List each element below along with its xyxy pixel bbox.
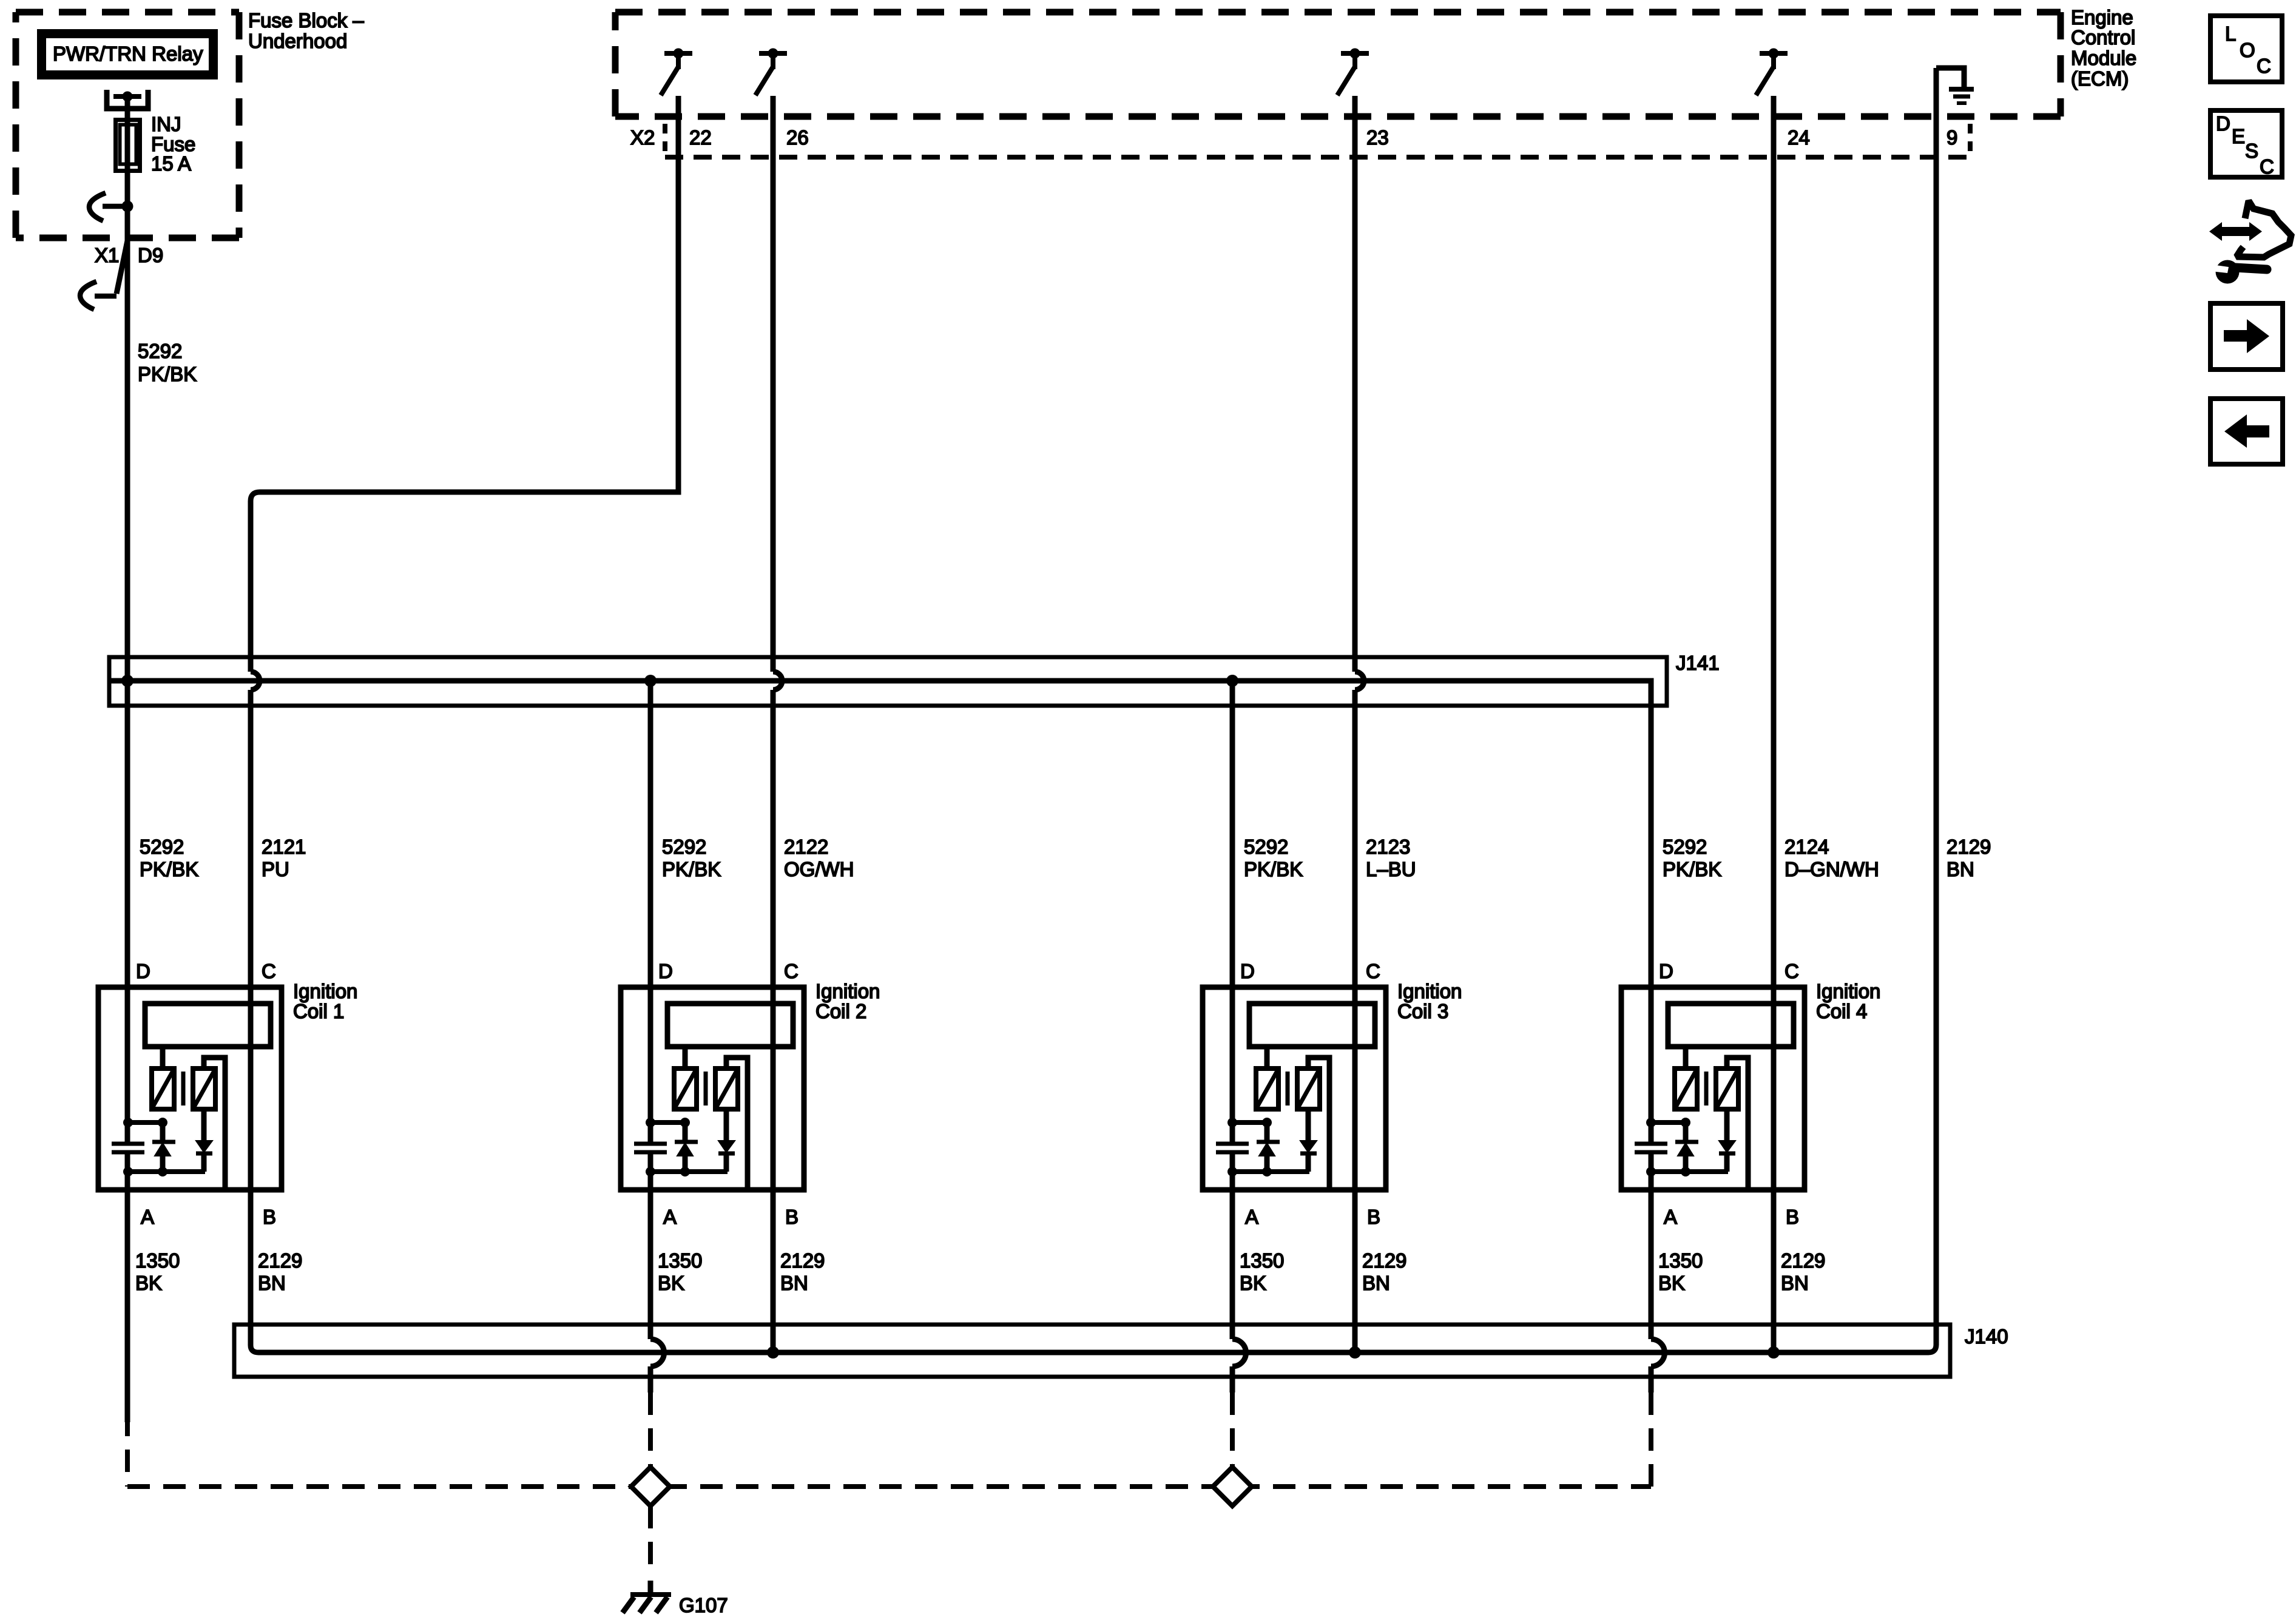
svg-text:26: 26 [786, 126, 809, 149]
svg-text:2124: 2124 [1784, 836, 1829, 858]
svg-text:Engine: Engine [2071, 6, 2133, 29]
coil 3 node line upper [1232, 1120, 1267, 1125]
wire hop: 1350 BK over J140 bus wire at x=2031 [1232, 1339, 1246, 1366]
svg-text:Coil 1: Coil 1 [293, 1000, 344, 1022]
ground distribution dashed bus [127, 1484, 1651, 1489]
svg-text:2121: 2121 [262, 836, 306, 858]
wire 1350 BK coil A at x=2721 [1649, 1152, 1654, 1339]
svg-text:Ignition: Ignition [1816, 980, 1880, 1002]
coil 1 node line upper [128, 1120, 163, 1125]
svg-text:BN: BN [780, 1272, 808, 1294]
wire 1350 BK coil A at x=1072 [648, 1152, 653, 1339]
svg-text:1350: 1350 [1240, 1249, 1284, 1272]
svg-text:PK/BK: PK/BK [1244, 858, 1303, 880]
svg-text:PK/BK: PK/BK [1663, 858, 1721, 880]
svg-text:PWR/TRN Relay: PWR/TRN Relay [53, 42, 203, 65]
svg-text:BN: BN [1362, 1272, 1390, 1294]
coil 1 secondary output wire [204, 1058, 225, 1187]
svg-text:A: A [141, 1206, 154, 1228]
wire hop: 2123 over J141 bus wire [1355, 672, 1364, 690]
svg-text:Coil 3: Coil 3 [1397, 1000, 1448, 1022]
svg-text:2129: 2129 [1781, 1249, 1825, 1272]
connector X1 pin D9 blade [116, 238, 128, 294]
svg-text:D9: D9 [138, 244, 163, 266]
svg-text:S: S [2245, 140, 2258, 162]
svg-text:X2: X2 [630, 126, 655, 149]
fuse INJ 15A symbol [116, 120, 140, 171]
svg-text:BN: BN [1947, 858, 1974, 880]
coil 1 diode D1 [160, 1122, 166, 1140]
junction: coil 2 B joins J140 [767, 1346, 779, 1359]
ECM driver output pin 22 [661, 53, 692, 95]
svg-text:D: D [658, 960, 673, 982]
svg-text:24: 24 [1788, 126, 1810, 149]
connector clip lower (X1 D9) [80, 282, 96, 309]
coil 3 module block [1249, 1004, 1375, 1047]
svg-text:BK: BK [135, 1272, 162, 1294]
wire 5292 PK/BK: J141 to coil 2 D [648, 681, 653, 1144]
svg-text:L: L [2225, 22, 2236, 45]
splice diamond (coil 3 ground) [1213, 1467, 1252, 1506]
splice diamond (coil 2 ground) [631, 1467, 670, 1506]
coil 2 node line lower [650, 1169, 728, 1174]
wire 2124 D-GN/WH: pin 24 to coil 4 C [1771, 96, 1777, 1352]
svg-text:A: A [663, 1206, 677, 1228]
wire 2129 BN: pin 9 down right side [1934, 68, 1939, 1345]
svg-text:9: 9 [1947, 126, 1957, 149]
junction: coil 3 D tap on J141 [1226, 675, 1238, 687]
svg-text:PK/BK: PK/BK [140, 858, 198, 880]
svg-text:Module: Module [2071, 47, 2136, 69]
svg-text:C: C [2260, 155, 2274, 178]
svg-text:D: D [136, 960, 150, 982]
svg-text:INJ: INJ [151, 113, 181, 135]
svg-text:1350: 1350 [1658, 1249, 1703, 1272]
DESC nav box [2210, 110, 2282, 177]
ignition coil 4 assembly box [1621, 987, 1805, 1190]
coil 1 module block [145, 1004, 271, 1047]
coil 3 diode D2 [1306, 1109, 1311, 1141]
svg-text:E: E [2232, 125, 2245, 147]
svg-text:C: C [262, 960, 276, 982]
svg-text:J140: J140 [1965, 1325, 2008, 1348]
splice pack J140 box [234, 1325, 1950, 1377]
coil 4 diode D2 [1724, 1109, 1730, 1141]
ignition coil 2 assembly box [621, 987, 804, 1190]
coil 2 secondary winding W2 [715, 1068, 738, 1109]
svg-text:5292: 5292 [138, 340, 182, 362]
svg-text:D: D [1659, 960, 1673, 982]
connector X2 row [665, 124, 1970, 152]
svg-text:23: 23 [1366, 126, 1389, 149]
svg-text:22: 22 [689, 126, 712, 149]
connector clip upper (fuse block exit) [89, 193, 106, 221]
svg-text:Ignition: Ignition [293, 980, 357, 1002]
wire hop: 2122 over J141 bus wire [773, 672, 782, 690]
coil 3 primary winding W1 [1264, 1047, 1270, 1068]
junction: coil 2 D tap on J141 [644, 675, 657, 687]
svg-text:2129: 2129 [1947, 836, 1991, 858]
coil 3 node line lower [1232, 1169, 1309, 1174]
svg-text:PK/BK: PK/BK [138, 363, 197, 385]
coil 3 diode D1 [1264, 1122, 1270, 1140]
svg-text:2129: 2129 [258, 1249, 302, 1272]
svg-text:X1: X1 [95, 244, 119, 266]
svg-text:1350: 1350 [658, 1249, 702, 1272]
svg-text:Coil 4: Coil 4 [1816, 1000, 1867, 1022]
next page arrow box [2210, 303, 2283, 370]
svg-text:1350: 1350 [135, 1249, 180, 1272]
coil 4 primary winding W1 [1683, 1047, 1689, 1068]
coil 4 core bar [1704, 1072, 1709, 1106]
J141 internal bus wire (turns down to coil 4 D) [110, 681, 1651, 1144]
jump/repair icon [2209, 222, 2222, 241]
svg-text:BK: BK [1240, 1272, 1266, 1294]
ignition coil 1 assembly box [98, 987, 282, 1190]
svg-text:Underhood: Underhood [248, 30, 347, 52]
coil 4 node line upper [1651, 1120, 1686, 1125]
fuse block - underhood dashed box [16, 12, 239, 238]
coil 3 secondary output wire [1308, 1058, 1329, 1187]
svg-text:B: B [785, 1206, 799, 1228]
coil 1 secondary winding W2 [193, 1068, 215, 1109]
ECM driver output pin 26 [755, 53, 787, 95]
fuse output junction dot [122, 201, 133, 212]
wire 2123 L-BU: pin 23 to coil 3 C [1352, 96, 1358, 672]
relay pin receptacle symbol [107, 90, 148, 109]
coil 2 primary winding W1 [683, 1047, 688, 1068]
svg-text:J141: J141 [1676, 652, 1720, 674]
svg-text:C: C [784, 960, 799, 982]
svg-text:OG/WH: OG/WH [784, 858, 854, 880]
coil 3 secondary winding W2 [1297, 1068, 1320, 1109]
svg-text:Ignition: Ignition [815, 980, 880, 1002]
svg-text:O: O [2240, 39, 2255, 61]
coil 1 primary winding W1 [160, 1047, 166, 1068]
wire hop: 1350 BK over J140 bus wire at x=2721 [1651, 1339, 1665, 1366]
coil 2 core bar [704, 1072, 708, 1106]
svg-text:5292: 5292 [662, 836, 706, 858]
svg-text:5292: 5292 [1244, 836, 1288, 858]
coil 1 capacitor [112, 1142, 144, 1146]
svg-text:D: D [2216, 112, 2230, 135]
svg-text:BN: BN [258, 1272, 286, 1294]
svg-text:G107: G107 [679, 1594, 728, 1616]
coil 2 node line upper [650, 1120, 685, 1125]
ground G107 [648, 1581, 653, 1596]
wire 2122 OG/WH: pin 26 to coil 2 C [771, 96, 776, 672]
wire: relay output / 5292 feed (upper run) [125, 96, 130, 1144]
wire 2121 PU: pin 22 to coil 1 C (with jog) [251, 96, 678, 672]
wire 5292 PK/BK: J141 to coil 3 D [1230, 681, 1235, 1144]
coil 4 module block [1668, 1004, 1794, 1047]
wire 1350 BK coil 1 A [125, 1152, 130, 1422]
svg-text:Fuse Block –: Fuse Block – [248, 9, 364, 32]
coil 2 secondary output wire [726, 1058, 748, 1187]
svg-text:Ignition: Ignition [1397, 980, 1462, 1002]
svg-text:C: C [2257, 55, 2271, 77]
coil 2 capacitor [634, 1142, 667, 1146]
svg-text:B: B [1786, 1206, 1799, 1228]
junction: 5292 feed joins J141 [121, 675, 133, 687]
coil 2 diode D2 [724, 1109, 729, 1141]
coil 4 node line lower [1651, 1169, 1728, 1174]
ECM internal ground (pin 9) [1936, 68, 1964, 87]
Engine Control Module (ECM) dashed box [615, 12, 2061, 116]
svg-text:BK: BK [658, 1272, 684, 1294]
svg-text:C: C [1366, 960, 1380, 982]
svg-text:2123: 2123 [1366, 836, 1410, 858]
svg-text:Control: Control [2071, 26, 2135, 49]
ignition coil 3 assembly box [1203, 987, 1386, 1190]
svg-text:BK: BK [1658, 1272, 1685, 1294]
previous page arrow box [2210, 399, 2283, 464]
svg-text:5292: 5292 [140, 836, 184, 858]
svg-text:PK/BK: PK/BK [662, 858, 721, 880]
svg-text:L–BU: L–BU [1366, 858, 1416, 880]
svg-text:(ECM): (ECM) [2071, 67, 2129, 90]
svg-text:5292: 5292 [1663, 836, 1707, 858]
svg-text:A: A [1245, 1206, 1258, 1228]
coil 4 secondary winding W2 [1716, 1068, 1738, 1109]
svg-text:BN: BN [1781, 1272, 1809, 1294]
svg-text:D–GN/WH: D–GN/WH [1784, 858, 1879, 880]
coil 4 capacitor [1635, 1142, 1667, 1146]
coil 3 capacitor [1216, 1142, 1249, 1146]
coil 4 diode D1 [1683, 1122, 1689, 1140]
svg-text:B: B [1367, 1206, 1380, 1228]
svg-text:B: B [263, 1206, 276, 1228]
svg-text:Coil 2: Coil 2 [815, 1000, 866, 1022]
coil 1 core bar [181, 1072, 186, 1106]
J140 internal bus wire [251, 1345, 1936, 1352]
coil 2 module block [667, 1004, 793, 1047]
junction: coil 3 B joins J140 [1349, 1346, 1361, 1359]
ECM driver output pin 24 [1756, 53, 1788, 95]
wire hop: 2121 over J141 bus wire [251, 672, 260, 690]
coil 1 node line lower [128, 1169, 205, 1174]
svg-text:2129: 2129 [1362, 1249, 1406, 1272]
splice pack J141 box [109, 657, 1667, 706]
junction: coil 4 B joins J140 [1768, 1346, 1780, 1359]
svg-text:15 A: 15 A [151, 152, 191, 175]
svg-text:PU: PU [262, 858, 289, 880]
svg-text:C: C [1784, 960, 1799, 982]
svg-text:2129: 2129 [780, 1249, 825, 1272]
wire 1350 BK coil A at x=2031 [1230, 1152, 1235, 1339]
svg-text:D: D [1240, 960, 1255, 982]
coil 1 diode D2 [201, 1109, 207, 1141]
PWR/TRN Relay K-box [42, 34, 214, 75]
coil 3 core bar [1286, 1072, 1290, 1106]
coil 2 diode D1 [683, 1122, 688, 1140]
coil 4 secondary output wire [1727, 1058, 1748, 1187]
ECM driver output pin 23 [1337, 53, 1369, 95]
svg-text:2122: 2122 [784, 836, 828, 858]
svg-text:A: A [1664, 1206, 1677, 1228]
wire hop: 1350 BK over J140 bus wire at x=1072 [650, 1339, 664, 1366]
LOC nav box [2210, 16, 2282, 82]
